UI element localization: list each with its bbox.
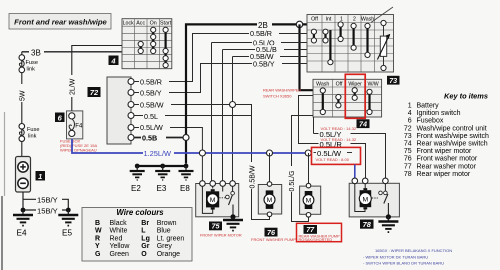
label plate 76 [265, 228, 278, 237]
fusebox 6 [67, 111, 83, 139]
svg-text:74: 74 [404, 141, 412, 148]
label plate 6 [55, 113, 65, 123]
svg-text:M: M [362, 196, 368, 203]
svg-text:Int: Int [326, 17, 332, 23]
2B drop to table 74 [300, 24, 314, 90]
svg-text:0.5L/G: 0.5L/G [289, 170, 296, 191]
svg-text:77: 77 [404, 163, 412, 170]
label plate 75 [209, 222, 222, 231]
scan edge artifact [1, 196, 3, 270]
svg-text:Lt. green: Lt. green [157, 235, 185, 242]
svg-text:78: 78 [363, 220, 372, 229]
svg-text:- SWITCH WIPER BLANO DR TURAN: - SWITCH WIPER BLANO DR TURAN BARU [363, 260, 444, 265]
svg-text:1.25L/W: 1.25L/W [144, 149, 172, 158]
svg-text:VOLT READ : 14.32: VOLT READ : 14.32 [321, 137, 357, 142]
vertical 0.5B/W down to motor75 t4 [232, 57, 234, 184]
svg-text:M: M [267, 197, 273, 204]
battery 1 [16, 157, 31, 193]
svg-text:E2: E2 [131, 184, 141, 193]
svg-text:FRONT WASHER PUMP: FRONT WASHER PUMP [251, 237, 296, 242]
ground E3 [155, 166, 170, 193]
wire 0.5B/R to switch 73 [193, 33, 308, 35]
svg-text:Blue: Blue [157, 228, 171, 235]
Wash contacts [322, 91, 324, 113]
wire 0.5L/O down to motor 75 [211, 43, 213, 184]
wire 0.5L/G trunk [292, 116, 314, 222]
svg-text:VOLT READ : 14.32: VOLT READ : 14.32 [321, 126, 357, 131]
svg-text:Green: Green [110, 251, 130, 258]
svg-text:0.5B/Y: 0.5B/Y [253, 59, 275, 68]
park switch [219, 197, 225, 199]
Off contacts [313, 32, 315, 41]
svg-text:Key to items: Key to items [444, 92, 488, 101]
svg-text:On: On [150, 21, 157, 27]
svg-text:2: 2 [353, 17, 356, 23]
front wiper motor 75 [196, 181, 239, 217]
internal wires [355, 184, 365, 212]
W/W contacts [368, 92, 370, 112]
Off contacts [337, 97, 339, 105]
svg-text:Front wash/wipe switch: Front wash/wipe switch [417, 133, 489, 140]
vertical label 0.5B/W (motor76 wire) [248, 162, 256, 189]
wire 0.5L/Y [314, 134, 386, 179]
ground bus E2 E3 E8 [137, 165, 187, 167]
wire 2L/W [72, 46, 122, 111]
svg-text:Rear wiper motor: Rear wiper motor [417, 171, 471, 178]
connector on trunk [183, 135, 189, 141]
svg-text:5W: 5W [20, 90, 27, 101]
vertical label 0.5L/G (motor77 wire) [287, 166, 296, 192]
svg-text:REAR WASH/WIPER: REAR WASH/WIPER [263, 88, 301, 93]
svg-text:Wash/wipe control unit: Wash/wipe control unit [417, 125, 487, 132]
svg-text:72: 72 [404, 125, 412, 132]
ground E2 [130, 166, 145, 193]
wire motor76 top [269, 153, 271, 183]
rear wiper motor 78 [349, 178, 399, 217]
svg-text:SWITCH X3650: SWITCH X3650 [263, 94, 292, 99]
svg-text:74: 74 [359, 120, 367, 129]
svg-text:Start: Start [160, 21, 172, 27]
wire 0.5L/W from 72 [134, 128, 202, 184]
wire 0.5B from 72 (to ground line) [134, 137, 186, 139]
red box 0.5L/W label [312, 147, 361, 164]
svg-text:Y: Y [95, 243, 100, 250]
svg-text:Fusebox: Fusebox [417, 118, 444, 125]
svg-text:2L/W: 2L/W [70, 78, 77, 95]
label plate 1 [36, 171, 46, 181]
svg-text:73: 73 [389, 76, 397, 85]
svg-text:- WIPER MOTOR DK TURAN BARU: - WIPER MOTOR DK TURAN BARU [363, 255, 428, 260]
svg-text:VOLT READ : 8.00: VOLT READ : 8.00 [316, 157, 350, 162]
wire to 0.5L/R from table [299, 96, 314, 144]
label plate 72 [88, 87, 101, 97]
svg-text:15B/Y: 15B/Y [37, 206, 58, 215]
Wiper contacts [354, 90, 356, 98]
label plate 74 [357, 119, 370, 128]
Wash contacts [366, 26, 368, 55]
blue wire 1.25L/W [72, 139, 312, 153]
ground E4 [13, 210, 33, 238]
svg-text:Brown: Brown [157, 220, 177, 227]
svg-text:72: 72 [90, 88, 99, 97]
svg-text:link: link [27, 67, 36, 73]
svg-text:78: 78 [404, 171, 412, 178]
label 1.25L/W [143, 149, 174, 158]
svg-text:Battery: Battery [417, 103, 440, 110]
blue wire to motor 78 [354, 165, 356, 179]
thick ground trunk with 2B top [186, 24, 257, 163]
svg-text:1: 1 [408, 103, 412, 110]
front washer motor 76 [258, 182, 281, 217]
svg-text:4: 4 [408, 110, 412, 117]
unit 72 pins [128, 79, 134, 141]
svg-text:Rear washer motor: Rear washer motor [417, 163, 477, 170]
svg-text:Br: Br [141, 220, 149, 227]
svg-text:Grey: Grey [157, 243, 173, 250]
svg-text:FRONT WIPER MOTOR: FRONT WIPER MOTOR [200, 234, 242, 238]
label plate 78 [360, 220, 374, 230]
control unit 72 [107, 77, 131, 144]
svg-text:165GX : WIPER BELAKANG X FUNCT: 165GX : WIPER BELAKANG X FUNCTION [375, 248, 452, 253]
key to items [404, 92, 489, 178]
svg-text:M: M [306, 198, 312, 205]
svg-text:0.5B/W: 0.5B/W [140, 101, 164, 110]
wire 3B horizontal [22, 51, 122, 53]
svg-text:White: White [110, 228, 128, 235]
wire 0.5L/O to switch 73 [212, 42, 308, 44]
svg-text:E8: E8 [180, 184, 190, 193]
svg-text:Front and rear wash/wipe: Front and rear wash/wipe [14, 18, 107, 27]
svg-text:0.5L: 0.5L [144, 112, 158, 121]
wire 0.5B/W from 72 [134, 105, 270, 220]
svg-text:O: O [141, 251, 147, 258]
svg-text:Front washer motor: Front washer motor [417, 156, 478, 163]
label plate 73 [387, 76, 400, 85]
wire 0.5L/B to switch 73 [223, 49, 308, 51]
svg-text:F4: F4 [75, 124, 83, 130]
wire 0.5L/R [313, 144, 366, 179]
wire 0.5B/Y from 72 [134, 64, 252, 93]
svg-text:Wiper: Wiper [348, 81, 362, 87]
labels of 72 wires [139, 77, 171, 142]
svg-text:B: B [95, 220, 100, 227]
junction dots E4 E5 [21, 208, 26, 213]
variable resistor [381, 20, 386, 25]
ignition switch table 4 [122, 19, 172, 69]
fuse link upper [19, 55, 38, 73]
red note fusebox [60, 139, 97, 153]
svg-text:Front wiper motor: Front wiper motor [417, 148, 473, 155]
label 15B/Y upper [36, 195, 62, 204]
contacts On column [152, 30, 154, 51]
front wash/wipe switch 73 [307, 7, 394, 72]
svg-text:R: R [95, 235, 100, 242]
svg-text:E4: E4 [17, 229, 27, 238]
svg-text:W/W: W/W [367, 81, 378, 87]
wire battery to grounds 15B/Y [23, 192, 68, 210]
diagonal lever [371, 7, 393, 23]
svg-text:Off: Off [336, 81, 343, 87]
label 0.5L/R [319, 140, 351, 148]
label 15B/Y lower [36, 206, 62, 215]
label plate 4 [109, 56, 119, 66]
svg-text:Yellow: Yellow [110, 243, 131, 250]
wire battery chain vertical [21, 52, 23, 157]
wire 0.5B/R from 72 [134, 34, 250, 82]
svg-text:73: 73 [404, 133, 412, 140]
motor78 ground [378, 214, 398, 232]
svg-text:Wire colours: Wire colours [116, 208, 164, 217]
svg-text:G: G [95, 251, 101, 258]
wire motor77 top [308, 153, 310, 184]
junction circle 0.5B/W [230, 102, 236, 108]
svg-text:Fuse: Fuse [27, 127, 39, 133]
wire 0.5L from 72 [134, 115, 252, 117]
svg-text:75: 75 [404, 148, 412, 155]
svg-text:Acc: Acc [136, 21, 145, 27]
svg-text:0.5B: 0.5B [142, 133, 157, 142]
top wire labels [249, 29, 284, 68]
ground E5 [58, 210, 78, 238]
wire colours legend [82, 208, 192, 262]
svg-text:0.5L/W: 0.5L/W [140, 123, 163, 132]
motor75 ground [223, 214, 243, 230]
internal wires [202, 186, 212, 213]
blue note bottom right [363, 248, 452, 265]
title box [9, 14, 111, 30]
stub 0.5L/Y up [313, 117, 315, 134]
label 2L/W [68, 75, 77, 97]
svg-text:Lock: Lock [123, 21, 135, 27]
svg-text:W: W [95, 228, 102, 235]
2B connector circle [296, 21, 302, 27]
contacts Acc column [140, 44, 142, 51]
svg-text:0.5B/R: 0.5B/R [250, 29, 272, 38]
svg-text:76: 76 [267, 228, 276, 237]
svg-text:Off: Off [311, 17, 318, 23]
svg-text:0.5B/Y: 0.5B/Y [140, 89, 162, 98]
svg-text:Gr: Gr [141, 243, 149, 250]
rear washer motor 77 [300, 183, 321, 217]
svg-text:link: link [28, 134, 37, 140]
svg-text:E5: E5 [62, 229, 72, 238]
svg-text:1: 1 [38, 172, 42, 181]
svg-text:Lg: Lg [141, 235, 150, 242]
svg-text:Wash: Wash [316, 81, 329, 87]
junction connector on 1.25L/W to motor 75 [199, 150, 205, 156]
svg-text:0.5B/W: 0.5B/W [249, 165, 256, 188]
svg-text:Fuse: Fuse [26, 60, 38, 66]
svg-text:Red: Red [110, 235, 123, 242]
svg-text:0.5B/R: 0.5B/R [140, 77, 162, 86]
contacts Start column [165, 30, 167, 65]
wire 0.5B/W to switch 73 [233, 56, 308, 58]
label 3B [29, 47, 44, 56]
wire 0.5B/Y to switch 73 [201, 63, 308, 65]
rear wash/wipe switch 74 [313, 79, 382, 117]
svg-text:Ignition switch: Ignition switch [417, 110, 461, 117]
svg-text:75: 75 [212, 222, 221, 231]
2 contacts [353, 26, 355, 48]
1 contacts [340, 25, 342, 40]
svg-text:WIPER DPNAGEAU: WIPER DPNAGEAU [60, 147, 97, 152]
svg-text:6: 6 [408, 118, 412, 125]
ground E8 [179, 166, 194, 193]
junction connector on 1.25L/W to motor 76 [267, 150, 273, 156]
svg-text:M: M [210, 197, 216, 204]
svg-text:Rear wash/wipe switch: Rear wash/wipe switch [417, 141, 488, 148]
svg-text:76: 76 [404, 156, 412, 163]
red highlight wiper column [345, 74, 365, 118]
svg-text:L: L [141, 228, 146, 235]
svg-text:3B: 3B [31, 49, 41, 58]
fuse link lower [19, 124, 39, 142]
svg-text:15B/Y: 15B/Y [37, 196, 58, 205]
svg-text:E3: E3 [157, 184, 167, 193]
park switch [372, 197, 378, 199]
wire 0.5L/B down to motor 75 [222, 50, 224, 184]
svg-text:Orange: Orange [157, 251, 180, 258]
svg-text:Black: Black [110, 220, 128, 227]
motor symbol [360, 190, 372, 207]
junction connector on 1.25L/W to motor 77 [305, 150, 311, 156]
motor symbol [206, 191, 219, 207]
svg-text:ROSAK/SHORTED: ROSAK/SHORTED [299, 237, 333, 242]
Int contacts [324, 32, 326, 41]
red box label 77 [297, 223, 342, 242]
svg-text:4: 4 [110, 56, 116, 65]
label 5W [18, 84, 27, 102]
label 0.5L/Y [319, 130, 351, 139]
